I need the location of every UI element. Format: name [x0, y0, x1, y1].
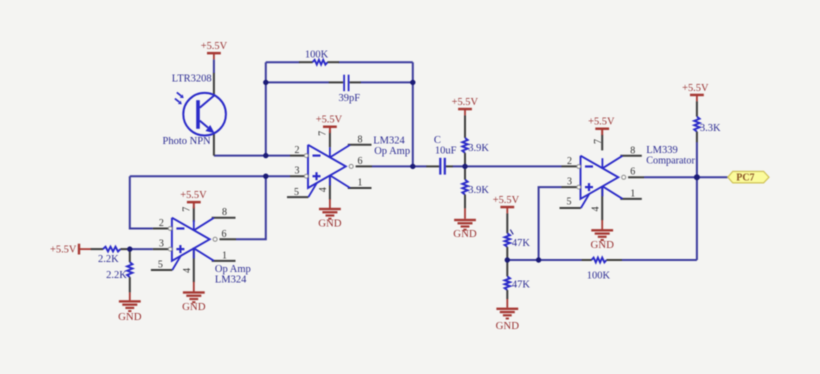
- svg-text:6: 6: [358, 156, 363, 167]
- svg-text:GND: GND: [118, 311, 142, 323]
- svg-text:2: 2: [295, 145, 300, 156]
- svg-text:GND: GND: [496, 320, 520, 332]
- svg-text:Op Amp: Op Amp: [215, 264, 251, 275]
- svg-text:100K: 100K: [305, 49, 329, 60]
- svg-text:LTR3208: LTR3208: [172, 73, 212, 84]
- svg-text:LM339: LM339: [646, 145, 678, 156]
- svg-text:4: 4: [318, 187, 329, 192]
- svg-text:PC7: PC7: [736, 173, 754, 184]
- svg-text:3.3K: 3.3K: [700, 123, 721, 134]
- svg-text:3: 3: [295, 166, 300, 177]
- svg-text:LM324: LM324: [373, 136, 405, 147]
- svg-text:8: 8: [630, 145, 635, 156]
- svg-text:7: 7: [593, 139, 604, 144]
- svg-text:LM324: LM324: [215, 274, 247, 285]
- svg-text:+5.5V: +5.5V: [493, 195, 520, 206]
- svg-text:39pF: 39pF: [339, 93, 361, 104]
- svg-text:Photo NPN: Photo NPN: [163, 136, 212, 147]
- svg-text:Op Amp: Op Amp: [374, 146, 410, 157]
- svg-text:+5.5V: +5.5V: [452, 97, 479, 108]
- svg-text:+5.5V: +5.5V: [50, 244, 77, 255]
- svg-text:47K: 47K: [512, 238, 531, 249]
- svg-text:100K: 100K: [587, 271, 611, 282]
- svg-text:+5.5V: +5.5V: [682, 83, 709, 94]
- svg-text:10uF: 10uF: [435, 146, 457, 157]
- svg-text:7: 7: [182, 207, 193, 212]
- svg-text:5: 5: [567, 196, 572, 207]
- svg-text:3.9K: 3.9K: [468, 143, 489, 154]
- svg-text:+5.5V: +5.5V: [180, 190, 207, 201]
- svg-text:1: 1: [222, 250, 227, 261]
- svg-text:47K: 47K: [512, 280, 531, 291]
- svg-text:2.2K: 2.2K: [106, 270, 127, 281]
- svg-text:7: 7: [318, 131, 329, 136]
- svg-text:8: 8: [358, 134, 363, 145]
- svg-text:GND: GND: [453, 228, 477, 240]
- svg-text:2: 2: [159, 218, 164, 229]
- svg-text:2: 2: [567, 156, 572, 167]
- svg-text:Comparator: Comparator: [646, 155, 695, 166]
- svg-text:5: 5: [158, 260, 163, 271]
- svg-text:GND: GND: [590, 239, 614, 251]
- svg-text:4: 4: [182, 268, 193, 273]
- svg-text:6: 6: [630, 167, 635, 178]
- svg-text:+5.5V: +5.5V: [201, 41, 228, 52]
- svg-text:3: 3: [159, 239, 164, 250]
- svg-text:+5.5V: +5.5V: [316, 115, 343, 126]
- svg-text:GND: GND: [182, 301, 206, 313]
- svg-text:5: 5: [294, 187, 299, 198]
- svg-text:2.2K: 2.2K: [98, 254, 119, 265]
- svg-text:1: 1: [630, 188, 635, 199]
- svg-text:6: 6: [222, 229, 227, 240]
- svg-text:C: C: [434, 135, 441, 146]
- svg-text:GND: GND: [318, 217, 342, 229]
- svg-text:1: 1: [358, 178, 363, 189]
- svg-text:3: 3: [567, 177, 572, 188]
- svg-text:4: 4: [590, 207, 601, 212]
- svg-text:+5.5V: +5.5V: [588, 117, 615, 128]
- svg-text:8: 8: [222, 207, 227, 218]
- svg-text:3.9K: 3.9K: [468, 185, 489, 196]
